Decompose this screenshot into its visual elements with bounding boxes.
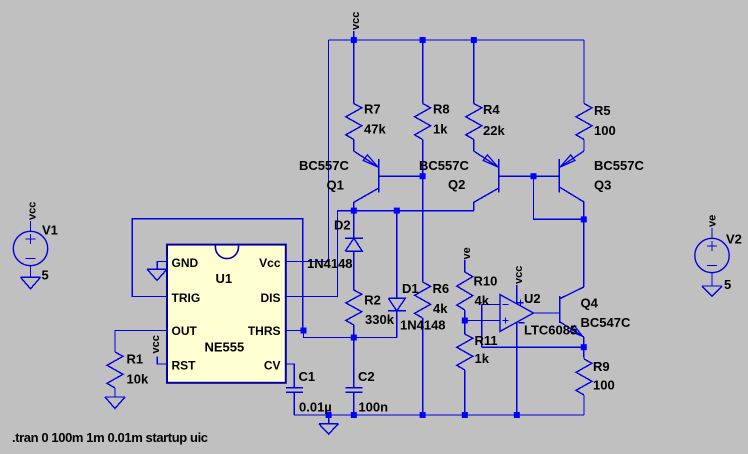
svg-text:R10: R10 xyxy=(474,274,498,289)
svg-text:R5: R5 xyxy=(594,103,611,118)
svg-text:R7: R7 xyxy=(364,102,381,117)
svg-text:4k: 4k xyxy=(475,293,490,308)
svg-text:D2: D2 xyxy=(334,218,351,233)
svg-text:R8: R8 xyxy=(433,102,450,117)
svg-text:D1: D1 xyxy=(402,281,419,296)
svg-text:R9: R9 xyxy=(593,359,610,374)
svg-text:1k: 1k xyxy=(475,351,490,366)
svg-text:LTC6085: LTC6085 xyxy=(524,323,577,338)
svg-text:CV: CV xyxy=(264,359,281,373)
svg-text:vcc: vcc xyxy=(150,335,162,353)
svg-text:Q4: Q4 xyxy=(581,296,599,311)
svg-text:100: 100 xyxy=(594,123,616,138)
svg-text:100: 100 xyxy=(593,378,615,393)
svg-text:.tran 0 100m 1m 0.01m startup: .tran 0 100m 1m 0.01m startup uic xyxy=(12,430,208,445)
svg-text:V1: V1 xyxy=(42,223,58,238)
svg-text:V2: V2 xyxy=(726,232,742,247)
svg-text:4k: 4k xyxy=(433,301,448,316)
svg-text:330k: 330k xyxy=(365,312,395,327)
svg-text:OUT: OUT xyxy=(172,324,198,338)
svg-text:BC557C: BC557C xyxy=(419,158,469,173)
svg-text:R4: R4 xyxy=(483,102,500,117)
svg-text:TRIG: TRIG xyxy=(172,291,201,305)
svg-text:1k: 1k xyxy=(433,122,448,137)
svg-text:vcc: vcc xyxy=(350,12,362,30)
svg-text:5: 5 xyxy=(42,268,49,283)
svg-text:1N4148: 1N4148 xyxy=(307,256,353,271)
svg-text:U2: U2 xyxy=(524,291,541,306)
svg-text:R11: R11 xyxy=(475,333,498,348)
svg-text:THRS: THRS xyxy=(248,324,281,338)
svg-text:5: 5 xyxy=(724,277,731,292)
svg-text:NE555: NE555 xyxy=(205,340,245,355)
svg-text:vcc: vcc xyxy=(27,202,39,220)
svg-text:vcc: vcc xyxy=(513,266,525,284)
svg-text:1N4148: 1N4148 xyxy=(400,318,446,333)
svg-text:10k: 10k xyxy=(127,372,149,387)
svg-text:C2: C2 xyxy=(358,369,375,384)
svg-text:0.01µ: 0.01µ xyxy=(299,400,332,415)
svg-text:47k: 47k xyxy=(364,122,386,137)
svg-text:22k: 22k xyxy=(483,123,505,138)
svg-text:BC557C: BC557C xyxy=(299,158,349,173)
svg-text:Vcc: Vcc xyxy=(259,256,281,270)
svg-text:DIS: DIS xyxy=(260,291,280,305)
svg-text:Q1: Q1 xyxy=(327,178,344,193)
svg-text:ve: ve xyxy=(707,215,719,227)
svg-text:U1: U1 xyxy=(216,271,233,286)
svg-text:Q3: Q3 xyxy=(594,178,611,193)
svg-text:R6: R6 xyxy=(433,281,450,296)
svg-text:100n: 100n xyxy=(358,400,388,415)
svg-text:BC547C: BC547C xyxy=(581,315,631,330)
svg-text:C1: C1 xyxy=(299,369,316,384)
svg-text:RST: RST xyxy=(172,359,197,373)
svg-text:ve: ve xyxy=(461,247,473,259)
svg-text:R1: R1 xyxy=(127,352,144,367)
svg-text:Q2: Q2 xyxy=(448,177,465,192)
svg-text:R2: R2 xyxy=(364,293,381,308)
svg-text:BC557C: BC557C xyxy=(594,158,644,173)
svg-text:GND: GND xyxy=(172,256,199,270)
